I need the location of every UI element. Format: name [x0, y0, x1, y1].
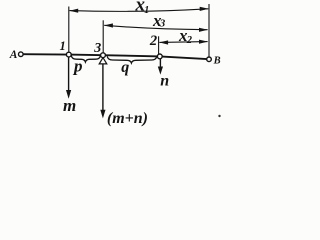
label x3: [152, 11, 166, 30]
dimension line x2: [159, 40, 208, 45]
brace p (span 1-3): [71, 56, 100, 62]
beam AB: [23, 54, 207, 59]
brace q (span 3-2): [107, 56, 157, 63]
force (m+n) at node 3: [100, 64, 105, 118]
svg-text:p: p: [72, 57, 83, 76]
svg-text:m: m: [63, 96, 76, 115]
label x1: [135, 0, 150, 16]
node A: [19, 52, 24, 57]
dimension line x1: [69, 7, 208, 13]
dimension line x3: [104, 23, 208, 32]
svg-text:q: q: [121, 59, 129, 76]
support reaction arrowhead at node 3: [99, 58, 107, 64]
label x2: [178, 26, 193, 46]
svg-text:B: B: [213, 55, 221, 66]
force n at node 2: [158, 58, 163, 75]
node 1: [66, 52, 71, 57]
extension line at node 1: [68, 7, 70, 54]
stray dot: [218, 115, 220, 117]
extension line at node 3: [102, 20, 104, 53]
node B: [207, 57, 212, 62]
extension line at node 2: [158, 36, 160, 55]
svg-text:(m+n): (m+n): [107, 110, 148, 127]
svg-text:n: n: [160, 72, 169, 89]
node 2: [157, 54, 162, 59]
svg-text:2: 2: [149, 33, 157, 49]
svg-text:A: A: [9, 49, 18, 61]
node 3: [101, 53, 106, 58]
svg-text:1: 1: [60, 39, 66, 53]
svg-text:2: 2: [186, 35, 193, 46]
svg-text:1: 1: [144, 5, 149, 16]
svg-text:3: 3: [93, 41, 101, 56]
svg-text:3: 3: [159, 18, 166, 30]
force m at node 1: [66, 56, 71, 99]
extension line at node B: [208, 4, 210, 58]
